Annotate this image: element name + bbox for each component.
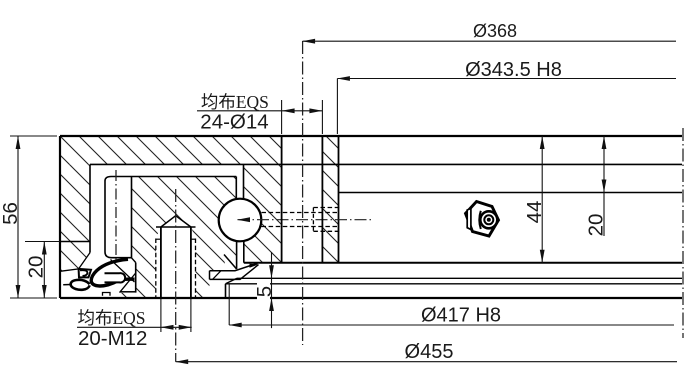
channel inner contour top — [105, 177, 236, 182]
hatched section: column between bolt hole and bore — [322, 136, 338, 263]
seal band cap — [209, 271, 211, 280]
M12 hole shoulder — [156, 226, 196, 228]
dimension 5 line — [271, 252, 273, 328]
grease plug dashed bottom — [313, 230, 339, 232]
svg-text:均布EQS: 均布EQS — [77, 308, 145, 328]
ball — [219, 199, 262, 242]
hatched section: small foot under retainer — [120, 293, 136, 298]
seal band bottom — [210, 265, 259, 280]
grease plug dashed left — [312, 208, 314, 232]
M12 thread dashed right — [195, 239, 197, 299]
dimension 20-M12 leader line — [77, 326, 161, 328]
retainer block bottom — [120, 291, 136, 293]
retainer block top-right chamfer — [132, 258, 136, 263]
svg-text:44: 44 — [523, 201, 546, 224]
axis centerline right x683 — [682, 128, 684, 338]
top face — [60, 135, 682, 137]
seal S-band — [91, 259, 134, 286]
plug hole right wall x131.5 — [131, 177, 133, 258]
grease passage dashed upper — [262, 212, 340, 214]
recess line y278.3 — [237, 277, 682, 279]
dimension 20-M12 extension lines — [160, 299, 162, 332]
M12 tapped hole white area — [156, 216, 196, 298]
seal foot bump — [103, 293, 111, 296]
svg-text:56: 56 — [0, 202, 22, 225]
left seal hatch boundary line — [61, 253, 90, 272]
retainer block inner diagonal — [120, 273, 136, 293]
svg-text:20: 20 — [25, 256, 48, 279]
centerline M12 hole / D455 extension x175.7 — [175, 189, 177, 362]
M12 thread dashed ticks — [156, 238, 161, 240]
grease plug dashed top — [313, 207, 339, 209]
dimension D417 line — [229, 324, 674, 326]
svg-text:20: 20 — [585, 214, 608, 237]
bolt hole right wall x322.4 — [321, 136, 323, 263]
centerline plug hole x116 — [115, 170, 117, 262]
dimension D417 extension — [228, 284, 230, 325]
recess step vertical — [225, 284, 227, 298]
retainer inner diagonal 2 — [111, 260, 135, 283]
grease nipple front facet arc — [479, 211, 481, 229]
grease nipple hex body — [466, 202, 499, 237]
inner ring step line y192.5 — [339, 192, 683, 194]
seal band tip — [250, 264, 259, 268]
slit below ball left wall — [236, 241, 238, 269]
svg-text:Ø343.5 H8: Ø343.5 H8 — [465, 59, 562, 81]
channel left wall x90 — [89, 164, 91, 252]
dimension D343.5 line — [337, 78, 676, 80]
seal cavity white area — [61, 253, 136, 298]
seal tongue — [105, 273, 126, 282]
dimension 24-D14 line with arrows — [282, 110, 323, 112]
recess chamfer — [226, 278, 238, 284]
hatched section: left column lower wedge — [61, 242, 90, 271]
ball center leader arrow — [238, 219, 374, 221]
wedge diagonal left of slit — [224, 255, 237, 270]
seal beak — [71, 280, 90, 290]
M12 hole minor dia right — [190, 227, 192, 298]
grease nipple circles — [480, 211, 497, 228]
M12 drill cone — [161, 216, 191, 227]
svg-text:Ø417 H8: Ø417 H8 — [421, 305, 501, 327]
grease passage dashed lower — [262, 226, 340, 228]
hatched section: outer ring top strip — [60, 136, 282, 165]
svg-text:Ø455: Ø455 — [405, 341, 454, 363]
hatched section: inner ring middle block — [132, 177, 237, 298]
seal clamp pocket — [79, 269, 91, 278]
dimension 20 right line — [603, 136, 605, 236]
dimension 24-D14 extension lines — [281, 100, 283, 134]
slit above ball right wall — [243, 164, 245, 199]
svg-text:20-M12: 20-M12 — [78, 327, 148, 350]
seal clamp curl — [80, 270, 87, 276]
inner ring bottom edge y262.7 — [244, 262, 682, 264]
dimension D368 line — [303, 40, 676, 42]
dimension D455 line — [176, 361, 677, 363]
recess line y283.8 — [226, 283, 683, 285]
bottom face — [60, 297, 682, 299]
dimension 20 left line — [43, 242, 45, 299]
dimension 56 extension top — [10, 135, 57, 137]
svg-text:Ø368: Ø368 — [473, 21, 517, 41]
seal band top — [210, 263, 258, 271]
dimension 20 left extension — [25, 241, 60, 243]
seal beak inner white — [78, 282, 83, 287]
retainer block right wall — [135, 263, 137, 293]
svg-text:5: 5 — [253, 286, 276, 297]
M12 thread dashed left — [155, 239, 157, 299]
left seal groove top line — [60, 241, 90, 243]
gap line y164.4 — [90, 163, 682, 165]
hatched section: block between ball and bolt hole — [244, 165, 282, 263]
slit above ball left wall — [235, 177, 237, 200]
grease nipple left facet — [467, 209, 471, 230]
centerline bolt hole / D368 extension x302.6 — [302, 41, 304, 345]
dimension 56 line — [17, 136, 19, 298]
hatched section: outer ring left column — [61, 165, 90, 242]
seal beak tail — [63, 284, 71, 286]
seal band inner hatch diagonal — [213, 271, 222, 280]
dimension 56 extension bottom — [10, 297, 57, 299]
svg-text:24-Ø14: 24-Ø14 — [200, 110, 268, 133]
bore fit line x338.5 — [338, 136, 340, 263]
M12 hole minor dia left — [160, 227, 162, 298]
dimension 44 line — [541, 136, 543, 263]
slit below ball right wall — [243, 241, 245, 263]
left edge of outer ring — [59, 136, 61, 298]
channel inner contour vertical — [105, 181, 132, 258]
dimension 24-D14 leader line — [197, 110, 282, 112]
dimension D343.5 extension — [336, 79, 338, 135]
bolt hole left wall x281.6 — [281, 136, 283, 263]
svg-text:均布EQS: 均布EQS — [201, 92, 269, 112]
dimension 5 text — [257, 283, 270, 301]
